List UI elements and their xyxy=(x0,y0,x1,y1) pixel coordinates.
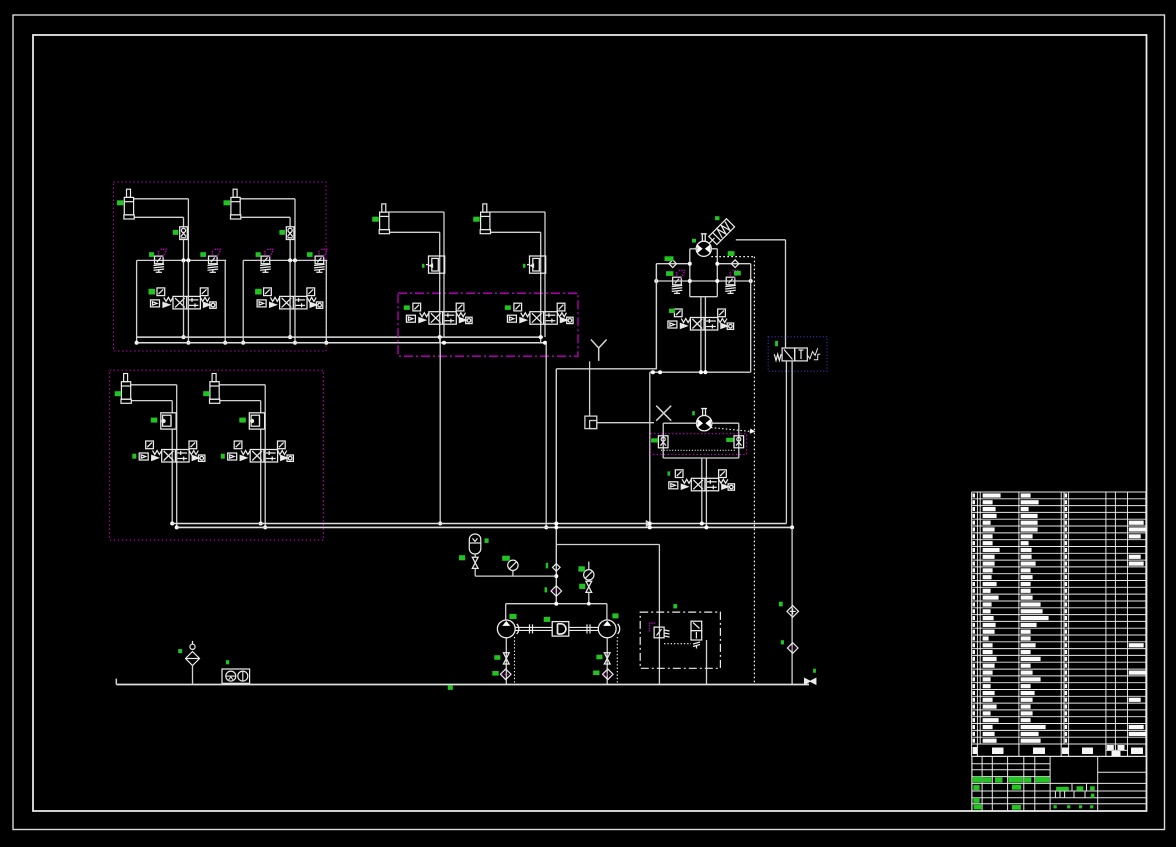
label xyxy=(651,438,658,442)
label xyxy=(492,671,498,676)
bus wire A2 xyxy=(137,342,546,344)
magenta group box 1 (top-left) xyxy=(114,182,327,351)
label throttle 2 xyxy=(523,264,526,268)
motor M2 shaft tick xyxy=(702,409,704,416)
label DCV-A1 xyxy=(149,289,156,295)
pilot arrowhead xyxy=(750,429,755,434)
BOM parts table xyxy=(972,492,1146,744)
letter D xyxy=(558,624,566,634)
pump P2 xyxy=(598,620,619,638)
pressure gauge xyxy=(584,570,594,580)
label xyxy=(775,341,778,346)
drain dotted vertical xyxy=(753,257,755,685)
wire: pump1 suction xyxy=(505,638,507,685)
wire: mid cylinder 1 top port xyxy=(389,211,444,213)
wire: M1 rail1 right xyxy=(717,263,750,265)
drain dotted from motor M1 xyxy=(711,256,754,258)
label DCV-C1 xyxy=(132,454,136,459)
label relief 1b xyxy=(200,252,206,257)
label xyxy=(545,587,548,592)
wire: down to heat exchanger box xyxy=(658,545,660,685)
label xyxy=(692,239,696,243)
magenta group box 4 (brake valves) xyxy=(651,434,747,455)
wire: Y to pilot square xyxy=(589,361,591,416)
label DCV-C2 xyxy=(221,454,225,459)
node X symbol xyxy=(656,406,671,421)
pilot check valve 1 xyxy=(161,413,176,429)
white dash-dot box (cooler unit) xyxy=(640,612,720,668)
high pressure filter xyxy=(551,586,562,597)
label xyxy=(726,438,733,442)
bus wire M1 return xyxy=(650,371,751,373)
solenoid valve DCV-M1 xyxy=(668,309,734,330)
wire: circuit 2 frame left xyxy=(242,260,244,342)
accumulator xyxy=(469,534,481,554)
label xyxy=(178,649,182,653)
wire: accumulator branch xyxy=(474,554,476,557)
solenoid valve DCV-M2 xyxy=(669,470,735,491)
check valve M1-R xyxy=(731,260,739,268)
wire: gauge2 to manifold xyxy=(588,592,590,603)
wire: gauge1 stem xyxy=(512,571,514,577)
label xyxy=(502,556,510,561)
label xyxy=(734,271,741,276)
drain dotted pump1 xyxy=(514,637,516,685)
label relief 2a xyxy=(256,252,261,257)
flow arrow on bus B1 xyxy=(646,520,652,527)
wire: M2 left column xyxy=(662,423,664,458)
solenoid valve DCV-B2 xyxy=(507,303,573,324)
label mid cylinder 2 xyxy=(473,217,480,222)
dotted top marks on gauges box xyxy=(234,668,244,670)
thermometer xyxy=(226,671,236,681)
BOM text bars xyxy=(972,493,1146,742)
label xyxy=(494,655,500,660)
wire: breather stem xyxy=(192,666,194,685)
link motor to el-motor xyxy=(709,238,715,244)
tank line xyxy=(116,684,809,686)
air breather filter xyxy=(186,652,200,666)
cylinder YG1 xyxy=(124,189,134,219)
wire: pump pressure line horizontal xyxy=(556,544,659,546)
wire: M2 DCV pair xyxy=(701,458,703,524)
slanted electric motor xyxy=(709,219,735,245)
label pilot check 1 xyxy=(151,418,158,423)
label xyxy=(779,602,783,607)
label flow valve 2 xyxy=(279,230,285,235)
electric motor D box xyxy=(552,622,569,637)
drain dotted pump2 xyxy=(616,637,618,685)
wire: drop from mid pair2 to lower bus xyxy=(545,343,547,528)
label xyxy=(813,669,816,673)
cylinder YG2 xyxy=(231,189,241,219)
relief valve M1-a xyxy=(672,277,683,293)
shutoff valve xyxy=(586,581,592,592)
bus wire B2 xyxy=(177,526,792,528)
label xyxy=(579,584,585,589)
label cylinder 2 xyxy=(224,200,231,205)
solenoid valve DCV-B1 xyxy=(406,303,472,324)
suction valve P1 xyxy=(503,653,509,664)
label mid cylinder 1 xyxy=(372,217,379,222)
pilot check valve 2 xyxy=(249,413,264,429)
cylinder MG1 xyxy=(379,204,389,234)
label xyxy=(669,309,675,313)
riser: pump pressure xyxy=(555,369,557,604)
label tank line xyxy=(448,685,453,690)
wire: circuit 1 frame right xyxy=(224,260,226,342)
motor M1 shaft tick xyxy=(701,234,703,242)
wire: cylinder 1 top port to drop xyxy=(134,198,189,200)
label pilot check 2 xyxy=(239,418,246,423)
solenoid valve DCV-C2 xyxy=(228,441,294,462)
label throttle 1 xyxy=(422,264,425,268)
wire: circuit 1 frame left xyxy=(136,260,138,342)
label xyxy=(509,614,516,619)
wire: M1 outer right vertical xyxy=(750,264,752,373)
shutoff valve xyxy=(805,678,816,684)
magenta pilot dots (cooler) xyxy=(649,622,655,631)
wire: LL cylinder 2 rod port xyxy=(220,400,261,402)
wire: pump2 riser xyxy=(606,604,608,620)
label LL cylinder 2 xyxy=(203,391,210,396)
node Y (drain) xyxy=(591,340,607,361)
hydraulic motor xyxy=(696,241,711,256)
label xyxy=(612,613,618,618)
check valve riser xyxy=(553,564,561,572)
small relief in cooler box xyxy=(654,627,670,638)
title block xyxy=(972,756,1147,811)
relief valve 1b xyxy=(208,256,219,272)
wire: return drop xyxy=(649,372,651,527)
vertical valve in cooler box xyxy=(691,621,702,648)
motor M1 port stubs xyxy=(690,248,696,250)
relief valve 2b xyxy=(314,256,325,272)
wire: pilot square to motor2 xyxy=(597,422,654,424)
label xyxy=(226,660,229,664)
blue dotted box xyxy=(768,337,827,371)
bus wire B1 xyxy=(172,523,786,525)
tank gauges box xyxy=(222,669,250,683)
wire: DCV 2 ports to bus xyxy=(289,260,291,337)
brake check valve L xyxy=(658,436,668,448)
breather top symbol xyxy=(190,644,195,649)
wire: cooler valve to tank xyxy=(706,640,708,685)
label xyxy=(781,640,784,644)
suction valve P2 xyxy=(604,653,610,664)
wire: flow valve 2 to rail xyxy=(289,240,291,261)
label LL cylinder 1 xyxy=(115,391,122,396)
shutoff valve xyxy=(472,557,478,568)
wire: circuit 2 frame right xyxy=(325,260,327,342)
relief valve 2a xyxy=(260,256,271,272)
wire: M1 left column xyxy=(689,249,691,297)
shaft pump1-D xyxy=(515,626,552,628)
pump P1 xyxy=(497,620,518,638)
brake check valve R xyxy=(734,436,744,448)
wire: LL 1 valve to DCV xyxy=(171,429,173,523)
pressure gauge xyxy=(508,560,518,570)
wire: cylinder 2 rod port to check valve xyxy=(241,216,290,218)
solenoid valve DCV-C1 xyxy=(139,441,205,462)
label DCV-A2 xyxy=(255,289,262,295)
wire: LL cylinder 1 top port xyxy=(131,384,177,386)
wire: mid cylinder 2 rod port xyxy=(491,231,541,233)
label xyxy=(692,411,695,415)
check valve M1-L xyxy=(669,260,677,268)
level gauge xyxy=(238,671,248,681)
label xyxy=(673,604,677,608)
wire: DCV 1 ports to bus xyxy=(183,260,185,337)
flow valve 2 xyxy=(286,227,294,240)
wire: return to tank right xyxy=(791,527,793,684)
label relief 2b xyxy=(307,252,313,257)
label xyxy=(596,655,602,660)
check valve (return) xyxy=(787,606,799,618)
wire: LL 2 valve to DCV xyxy=(260,429,262,523)
wire: pump2 suction xyxy=(606,638,608,685)
hydraulic motor xyxy=(697,416,712,431)
wire: gauge2 stub xyxy=(588,562,590,570)
wire: LL cylinder 1 rod port xyxy=(131,400,172,402)
label xyxy=(665,256,674,261)
wire: M1 outer left vertical xyxy=(655,264,657,369)
label xyxy=(459,555,465,560)
bus wire A1 xyxy=(137,336,543,338)
wire: cylinder 1 rod port to check valve xyxy=(134,216,183,218)
suction filter P2 xyxy=(603,669,614,680)
letter W xyxy=(774,354,781,360)
return filter xyxy=(787,643,798,654)
wire: flow valve 1 to rail xyxy=(183,240,185,261)
label flow valve 1 xyxy=(173,230,179,235)
wire: LL cylinder 2 top port xyxy=(219,384,265,386)
2/2 solenoid valve xyxy=(782,348,820,361)
relief valve M1-b xyxy=(725,277,736,293)
wire: M1 DCV pair xyxy=(700,297,702,373)
wire: M2 bottom rail xyxy=(663,457,739,459)
suction filter P1 xyxy=(500,669,511,680)
throttle valve 1 xyxy=(426,256,445,273)
wire: pump manifold xyxy=(506,603,607,605)
title block green text xyxy=(973,777,1095,810)
cylinder MG2 xyxy=(480,204,490,234)
label DCV-B1 xyxy=(404,305,410,310)
magenta dotted core line xyxy=(661,449,736,451)
solenoid valve DCV-A2 xyxy=(257,288,323,309)
solenoid valve DCV-A1 xyxy=(151,288,217,309)
wire: M1 right column xyxy=(716,249,718,297)
dotted pilot in cooler box xyxy=(664,643,691,645)
label xyxy=(728,251,735,256)
magenta group box 2 (lower-left) xyxy=(110,370,324,540)
wire: mid cylinder 2 top port xyxy=(490,211,545,213)
flow valve 1 xyxy=(180,227,188,240)
label cylinder 1 xyxy=(117,200,124,205)
wire: M1 U-bottom xyxy=(690,296,718,298)
wire: M2 top rail xyxy=(663,422,696,424)
throttle valve 2 xyxy=(527,256,546,273)
relief valve 1a xyxy=(154,256,165,272)
shaft D-pump2 xyxy=(569,626,599,628)
wire: drop from mid pair1 to lower bus xyxy=(439,337,441,523)
wire: M2 right column xyxy=(738,423,740,458)
wire: el-motor to W-valve feed xyxy=(736,239,786,241)
pilot square symbol xyxy=(585,416,597,429)
dotted pilot from M2 to drain line xyxy=(711,428,751,432)
wire: mid cylinder 1 rod port xyxy=(390,231,440,233)
wire: pump1 riser xyxy=(505,604,507,620)
label relief 1a xyxy=(149,252,154,257)
label xyxy=(485,538,489,543)
label xyxy=(666,271,673,276)
wire: rail of circuit 1 xyxy=(137,259,227,261)
label xyxy=(546,563,549,569)
label xyxy=(593,671,599,676)
cylinder LG2 xyxy=(210,374,220,404)
label DCV-B2 xyxy=(505,305,511,310)
wire: M1 rail2 xyxy=(656,280,750,282)
tank line left tick xyxy=(115,679,117,685)
bus wire to M1 left (pressure) xyxy=(556,368,657,370)
wire: cylinder 2 top port to drop xyxy=(240,198,295,200)
cylinder LG1 xyxy=(121,374,131,404)
label xyxy=(578,566,585,571)
wire: M1 rail1 left xyxy=(656,263,690,265)
wire: rail of circuit 2 xyxy=(243,259,327,261)
label xyxy=(668,471,671,475)
BOM header text blobs xyxy=(973,745,1143,756)
label xyxy=(544,617,551,622)
label xyxy=(715,216,720,220)
magenta dash-dot group box 3 (middle valves) xyxy=(398,293,578,356)
wire: W valve outputs xyxy=(785,361,787,524)
BOM header row xyxy=(972,744,1146,756)
